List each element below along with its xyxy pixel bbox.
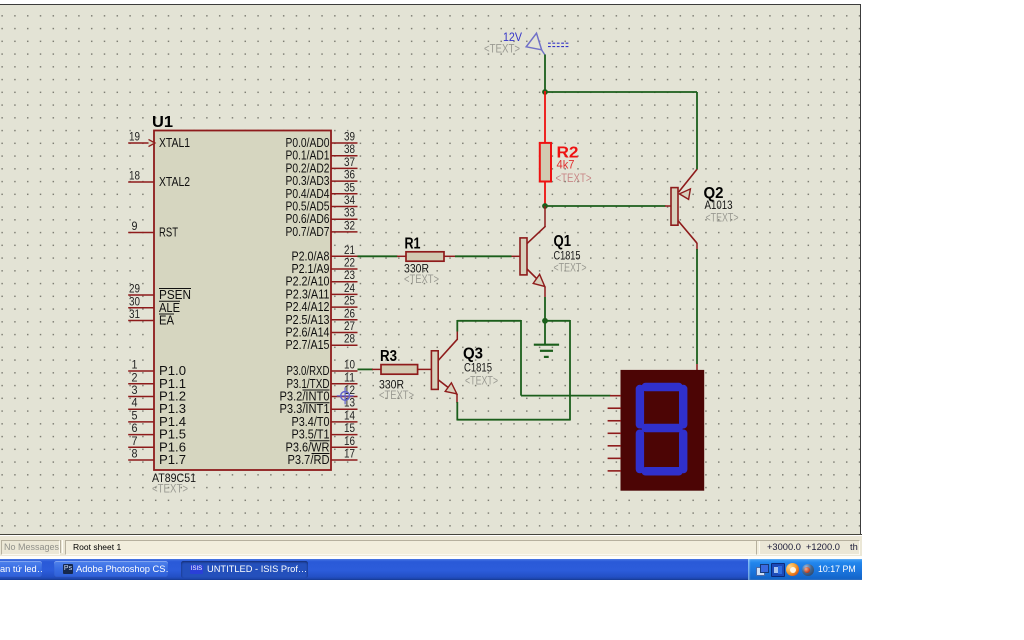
pin 7 P1.6	[128, 436, 186, 455]
pin 36 P0.3/AD3	[286, 170, 358, 189]
wire Q3 collector to display (via corner)	[457, 320, 610, 396]
pin 22 P2.1/A9	[292, 258, 358, 277]
power terminal 12V	[484, 30, 570, 56]
svg-text:R1: R1	[405, 236, 421, 253]
pin 17 P3.7/RD	[288, 449, 358, 468]
svg-text:14: 14	[344, 410, 356, 422]
pin 28 P2.7/A15	[286, 334, 358, 353]
pin 21 P2.0/A8	[292, 245, 358, 263]
pin 34 P0.5/AD5	[286, 195, 358, 214]
task button: ISIS (active)	[181, 561, 308, 577]
svg-text:38: 38	[344, 144, 355, 156]
tray icon 1	[756, 564, 767, 575]
display segments (digit 8)	[636, 383, 688, 476]
svg-text:U1: U1	[152, 114, 173, 131]
svg-text:26: 26	[344, 308, 355, 320]
resistor R3 330R	[372, 348, 432, 402]
7-segment display body	[621, 370, 705, 491]
pin 38 P0.1/AD1	[286, 144, 358, 163]
svg-text:16: 16	[344, 436, 355, 448]
node junction at 545,92	[542, 89, 548, 95]
svg-text:P0.7/AD7: P0.7/AD7	[286, 224, 330, 239]
wire red R2 bottom to junction	[544, 182, 546, 206]
system tray	[748, 559, 862, 580]
svg-text:4k7: 4k7	[557, 158, 575, 172]
svg-text:XTAL1: XTAL1	[159, 135, 190, 150]
node junction at 545,320	[542, 318, 548, 324]
tray icon 4	[802, 564, 814, 576]
svg-text:32: 32	[344, 220, 355, 232]
node junction at 545,206	[542, 203, 548, 209]
pin 11 P3.1/TXD	[287, 372, 358, 391]
svg-text:EA: EA	[159, 313, 174, 328]
tray icon 3	[786, 563, 799, 576]
transistor Q1 C1815	[511, 226, 587, 287]
svg-text:34: 34	[344, 195, 356, 207]
pin 29 PSEN	[128, 284, 191, 303]
svg-text:15: 15	[344, 423, 355, 435]
pin 10 P3.0/RXD	[287, 360, 358, 379]
svg-text:<TEXT>: <TEXT>	[152, 484, 188, 496]
transistor Q2 A1013	[665, 169, 739, 243]
svg-text:21: 21	[344, 245, 355, 257]
svg-text:12V: 12V	[503, 30, 522, 44]
tray icon 2	[771, 563, 785, 577]
svg-text:11: 11	[344, 372, 355, 384]
svg-text:10: 10	[344, 360, 355, 372]
svg-text:XTAL2: XTAL2	[159, 174, 190, 189]
pin 5 P1.4	[128, 410, 186, 429]
svg-text:<TEXT>: <TEXT>	[465, 376, 498, 388]
svg-text:8: 8	[132, 449, 138, 461]
svg-text:<TEXT>: <TEXT>	[554, 263, 587, 275]
svg-text:23: 23	[344, 270, 355, 282]
svg-text:A1013: A1013	[705, 198, 733, 212]
pin 2 P1.1	[128, 372, 186, 391]
svg-text:39: 39	[344, 132, 355, 144]
svg-text:18: 18	[129, 171, 140, 183]
wire Q3 emitter down	[456, 394, 458, 421]
svg-text:22: 22	[344, 258, 355, 270]
svg-text:7: 7	[132, 436, 138, 448]
svg-text:3: 3	[132, 385, 138, 397]
svg-text:9: 9	[132, 221, 138, 233]
pin 9 RST	[128, 221, 178, 240]
svg-text:RST: RST	[159, 225, 178, 240]
pin 24 P2.3/A11	[286, 283, 358, 302]
svg-text:P3.7/RD: P3.7/RD	[288, 452, 330, 467]
svg-text:<TEXT>: <TEXT>	[379, 390, 414, 402]
pin 4 P1.3	[128, 398, 186, 417]
wire junction right and down to emitter rail	[457, 320, 570, 421]
svg-text:<TEXT>: <TEXT>	[556, 173, 592, 185]
pin 23 P2.2/A10	[286, 270, 358, 289]
svg-text:<TEXT>: <TEXT>	[706, 213, 739, 225]
svg-text:31: 31	[129, 309, 140, 321]
display left pins	[608, 396, 621, 471]
pin 19 XTAL1	[128, 132, 190, 151]
svg-text:P2.7/A15: P2.7/A15	[286, 337, 330, 352]
chip U1 AT89C51	[152, 114, 331, 496]
wire 12V terminal down	[544, 55, 546, 93]
svg-text:30: 30	[129, 296, 140, 308]
svg-text:33: 33	[344, 208, 355, 220]
pin 14 P3.4/T0	[292, 410, 358, 429]
wire red 12V junction down to R2	[544, 91, 546, 144]
pin 12 P3.2/INT0	[280, 385, 358, 404]
wire junction to Q2 emitter (top rail)	[545, 92, 697, 170]
task button: Adobe Photoshop	[54, 561, 168, 577]
pin 33 P0.6/AD6	[286, 208, 358, 227]
task button: an tu led	[0, 561, 42, 577]
pin 6 P1.5	[128, 423, 186, 442]
pin 27 P2.6/A14	[286, 321, 358, 340]
wire Q3 collector up	[456, 320, 458, 340]
pin 31 EA	[128, 309, 174, 328]
svg-text:P1.7: P1.7	[159, 452, 186, 467]
pin 30 ALE	[128, 296, 180, 315]
pin 39 P0.0/AD0	[286, 132, 358, 151]
pin 18 XTAL2	[128, 171, 190, 190]
svg-text:27: 27	[344, 321, 355, 333]
wire junction to Q2 base	[545, 205, 666, 207]
wire junction down to Q1 collector	[544, 206, 546, 227]
svg-text:<TEXT>: <TEXT>	[484, 44, 520, 56]
svg-text:Q1: Q1	[554, 233, 572, 250]
pin 25 P2.4/A12	[286, 296, 358, 315]
pin 13 P3.3/INT1	[280, 398, 358, 417]
svg-text:C1815: C1815	[464, 361, 492, 375]
svg-text:C1815: C1815	[554, 249, 581, 263]
svg-text:36: 36	[344, 170, 355, 182]
wire P3.0 to R3	[358, 368, 374, 370]
wire Q1 emitter down	[544, 287, 546, 321]
pin 1 P1.0	[128, 360, 186, 379]
svg-text:1: 1	[132, 360, 138, 372]
ground symbol	[534, 321, 559, 357]
wire-end cursor at pin 12	[337, 387, 354, 404]
pin 32 P0.7/AD7	[286, 220, 358, 239]
svg-text:24: 24	[344, 283, 356, 295]
resistor R1 330R	[397, 236, 456, 287]
svg-text:2: 2	[132, 372, 138, 384]
svg-text:37: 37	[344, 157, 355, 169]
pin 3 P1.2	[128, 385, 186, 404]
pin 16 P3.6/WR	[286, 436, 358, 455]
svg-text:R3: R3	[380, 348, 397, 365]
wire R1 to Q1 base	[455, 255, 512, 257]
wire Q2 collector down to display	[696, 243, 698, 370]
svg-text:17: 17	[344, 449, 355, 461]
pin 15 P3.5/T1	[292, 423, 358, 442]
svg-text:6: 6	[132, 423, 138, 435]
pin 37 P0.2/AD2	[286, 157, 358, 176]
svg-text:<TEXT>: <TEXT>	[404, 274, 439, 286]
pin 35 P0.4/AD4	[286, 182, 358, 201]
svg-text:29: 29	[129, 284, 140, 296]
svg-text:35: 35	[344, 182, 355, 194]
svg-text:5: 5	[132, 410, 138, 422]
svg-text:28: 28	[344, 334, 355, 346]
resistor R2 4k7 (selected, red)	[540, 143, 592, 185]
transistor Q3 C1815	[431, 339, 498, 394]
pin 26 P2.5/A13	[286, 308, 358, 327]
wire P2.0 to R1	[358, 255, 398, 257]
pin 8 P1.7	[128, 449, 186, 468]
svg-text:25: 25	[344, 296, 355, 308]
svg-text:4: 4	[132, 398, 139, 410]
svg-text:19: 19	[129, 132, 140, 144]
